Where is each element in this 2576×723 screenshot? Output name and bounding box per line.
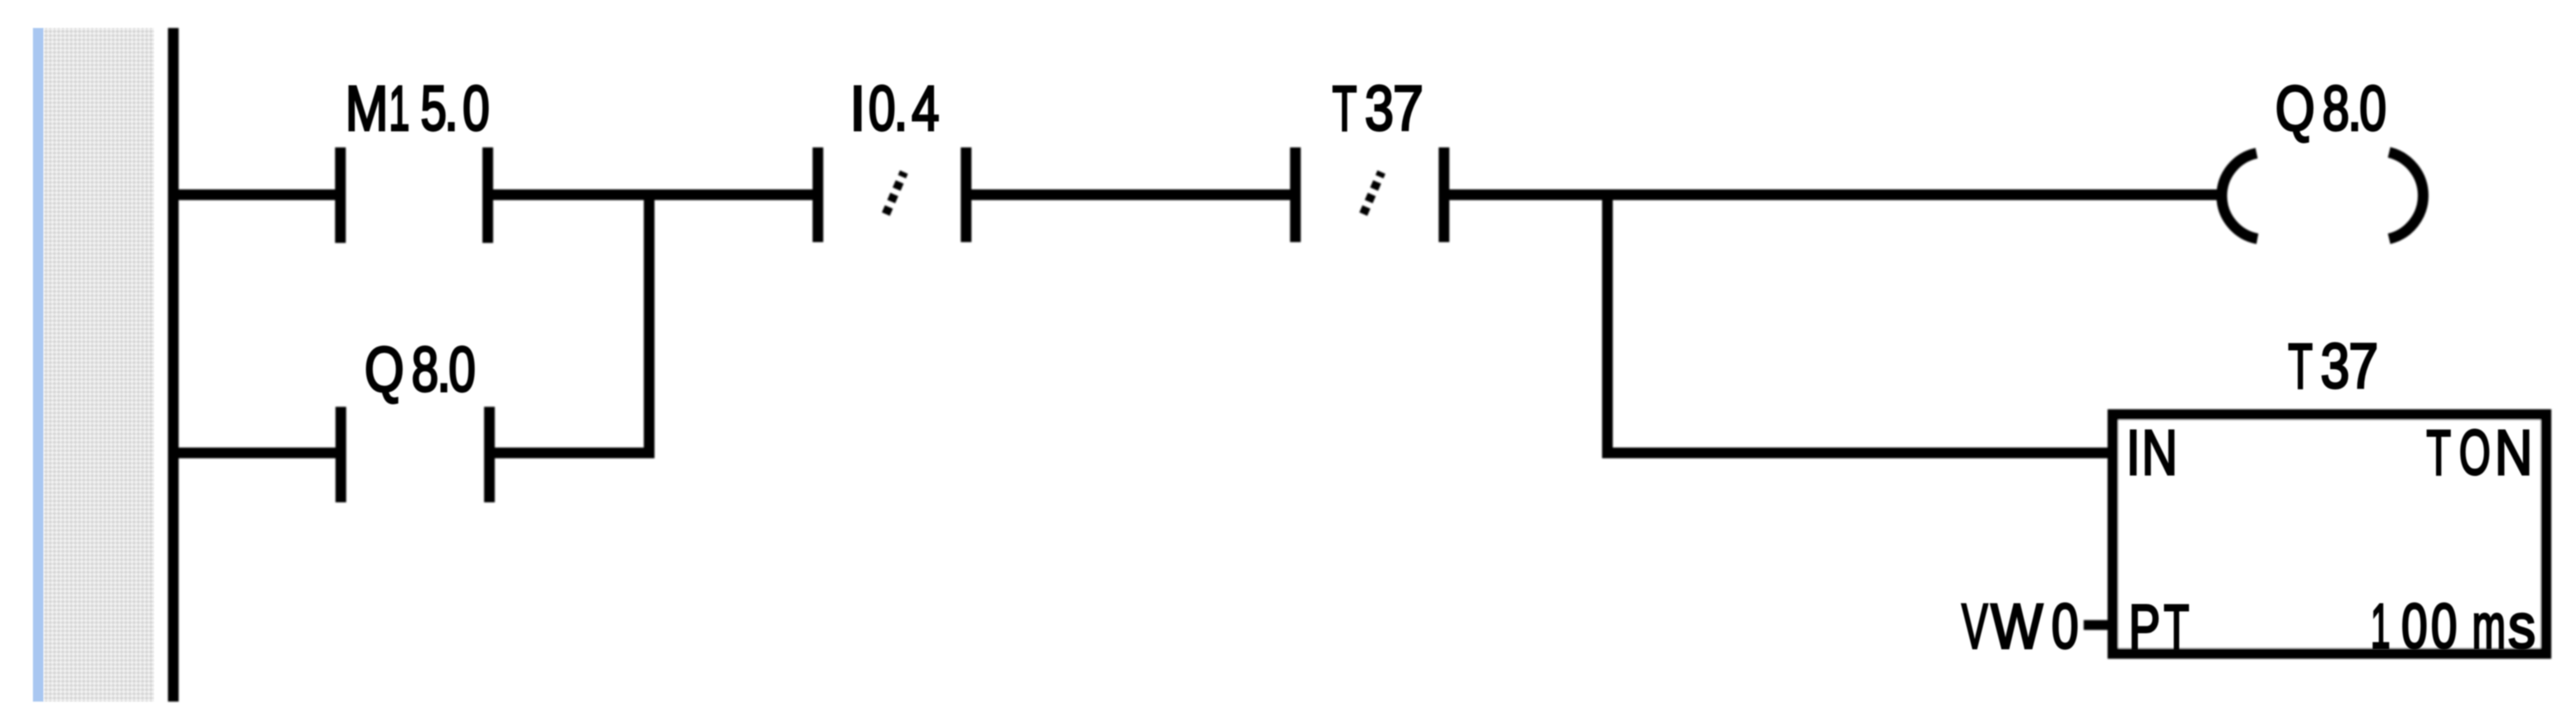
type label TON [2426,417,2532,487]
contact T37 left bar [1290,147,1301,242]
label T37 timer [2288,330,2378,402]
wire rung1: contact I0.4 to contact T37 [970,189,1292,200]
svg-text:8: 8 [412,334,439,404]
label Q8.0 coil [2276,72,2387,143]
svg-text:T: T [2164,591,2189,662]
contact Q8.0 right bar [484,407,495,502]
svg-text:0: 0 [2359,72,2387,143]
label Q8.0 contact [365,334,476,404]
svg-text:W: W [1991,592,2043,662]
branch wire down from rung1 to timer input [1602,189,1613,459]
operand VW0 [1962,590,2079,662]
svg-text:0: 0 [2431,592,2457,662]
svg-text:5: 5 [421,74,447,144]
label I0.4 [850,72,939,144]
pin label PT [2129,591,2189,663]
svg-text:1: 1 [389,74,409,144]
gutter gray strip [44,28,154,702]
gutter blue edge line [33,28,44,702]
contact I0.4 right bar [961,147,971,242]
svg-text:0: 0 [869,72,896,143]
svg-text:T: T [2288,331,2313,402]
svg-text:I: I [2126,417,2140,487]
label T37 contact [1332,72,1423,144]
contact T37 NC slash [1363,172,1381,214]
svg-text:4: 4 [911,72,939,144]
wire branch to timer IN pin [1602,448,2113,459]
svg-text:8: 8 [2322,72,2350,143]
svg-text:7: 7 [2349,332,2378,403]
svg-text:N: N [2141,417,2177,488]
wire rung1: contact T37 to coil Q8.0 [1448,189,2222,200]
svg-text:I: I [850,72,866,143]
wire rung1: rail to contact M15.0 [168,189,337,200]
svg-text:Q: Q [365,334,404,405]
svg-text:3: 3 [2321,330,2350,401]
svg-text:0: 0 [463,72,490,143]
svg-text:O: O [2459,417,2490,488]
svg-text:P: P [2129,592,2160,663]
contact M15.0 left bar [335,147,346,243]
svg-text:s: s [2508,592,2536,663]
wire rung2: contact Q8.0 to branch junction [494,448,654,459]
wire VW0 tick to PT pin [2084,620,2113,630]
coil Q8.0 left arc [2222,153,2257,239]
svg-text:M: M [345,72,388,144]
svg-text:7: 7 [1393,74,1423,144]
pin label IN [2126,417,2178,488]
svg-text:0: 0 [2052,590,2079,661]
svg-text:1: 1 [2370,592,2390,662]
coil Q8.0 right arc [2389,152,2423,239]
svg-text:3: 3 [1365,72,1394,143]
wire rung2: rail to contact Q8.0 [168,448,337,459]
svg-text:T: T [1332,73,1357,144]
svg-text:V: V [1962,590,1988,662]
svg-text:Q: Q [2276,73,2315,144]
wire rung1: contact M15.0 to contact I0.4 [492,189,814,200]
power rail [168,28,179,702]
svg-text:0: 0 [2401,592,2428,662]
contact Q8.0 left bar [336,407,347,502]
label M15.0 [345,72,489,144]
contact I0.4 NC slash [886,172,904,214]
svg-text:T: T [2426,417,2451,488]
branch junction wire down from rung1 to rung2 [644,189,654,459]
svg-text:.: . [445,72,459,143]
svg-text:.: . [894,72,908,143]
timer box T37 TON outline [2113,415,2546,654]
svg-text:m: m [2472,591,2506,662]
contact T37 right bar [1439,147,1450,242]
svg-text:0: 0 [449,334,476,404]
contact M15.0 right bar [482,147,493,243]
svg-text:N: N [2494,417,2532,487]
value label 100 ms [2370,591,2535,662]
contact I0.4 left bar [813,147,823,242]
